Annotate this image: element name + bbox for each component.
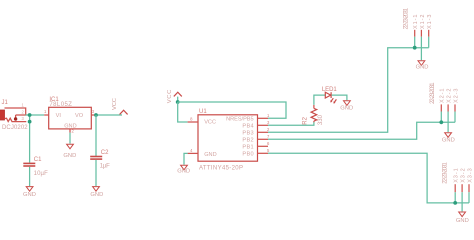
U1 pin 6 stub [258,145,269,147]
svg-text:VCC: VCC [204,119,216,125]
svg-text:PB0: PB0 [242,151,253,157]
voltage regulator IC1 78L05Z [49,97,92,129]
IC1 pin 3 stub [91,114,96,116]
node junction X3 [453,201,457,205]
svg-text:X2-2: X2-2 [447,89,453,104]
svg-text:22-23-2031: 22-23-2031 [430,82,436,104]
wire U1 pin5 to connector X3 [268,153,469,203]
IC1 pin 2 stub [69,129,71,133]
ground below X2 [442,133,455,144]
svg-text:LED1: LED1 [322,87,337,93]
svg-text:DCJ0202: DCJ0202 [2,125,28,131]
J1 pin 1 [5,108,26,115]
connector X3 22-23-2031 [443,162,474,193]
wire C2 branch down [95,115,97,156]
capacitor C1 [23,157,48,177]
svg-text:GND: GND [442,137,455,143]
U1 pin 4 stub [188,152,198,154]
U1 pin 5 stub [258,152,269,154]
svg-text:GND: GND [456,218,469,224]
wire C2 to ground [95,160,97,186]
svg-text:1µF: 1µF [100,164,110,170]
svg-text:C2: C2 [101,150,109,156]
wire IC1 VO to VCC arrow [96,114,122,116]
node junction VCC net [176,100,180,104]
svg-text:X3-2: X3-2 [461,168,467,183]
wire IC1 GND pin down [69,133,71,144]
wire J1 down to C1 [29,115,31,163]
wire R2 to LED1 [314,95,325,105]
svg-text:GND: GND [23,192,36,198]
svg-text:U1: U1 [199,109,207,115]
svg-text:X1-1: X1-1 [413,15,419,30]
wire X3 pin3 down [468,192,470,203]
wire LED1 to ground [332,95,347,100]
svg-text:GND: GND [204,152,216,158]
node junction rail/C1 [28,113,32,117]
svg-text:PB3: PB3 [242,130,253,136]
wire VCC stub down to junction [177,97,179,102]
wire VCC junction down to U1 pin8 [178,102,188,122]
svg-text:ATTINY45-20P: ATTINY45-20P [199,165,243,171]
resistor R2 330 [303,105,324,125]
svg-text:GND: GND [340,106,353,112]
wire X2 pin1 down [440,112,442,123]
node junction pin3 [28,120,32,124]
wire U1 pin3 to R2 [268,122,314,125]
svg-text:330: 330 [318,114,324,125]
wire X1 pin2 to ground [420,37,422,61]
ground below X1 [416,61,429,71]
J1 pin number labels [22,103,25,122]
wire J1 to IC1 VI [26,114,45,116]
node junction VO/C2 [94,113,98,117]
svg-text:X3-3: X3-3 [467,168,473,183]
svg-text:GND: GND [64,123,76,129]
wire X2 pin2 to ground [447,112,449,133]
ground below U1 pin4 [177,165,190,174]
svg-text:J1: J1 [2,100,9,106]
J1 pin 3 spring [5,118,27,121]
capacitor C2 [90,150,110,169]
svg-text:GND: GND [63,153,76,159]
wire X1 pin1 down [414,37,416,48]
LED LED1 [322,87,337,104]
svg-text:PB2: PB2 [242,137,253,143]
svg-text:GND: GND [177,169,190,175]
svg-text:10µF: 10µF [34,171,49,177]
ground below IC1 [63,144,76,159]
wire U1 pin7 to connector X2 [268,122,455,139]
svg-text:VI: VI [56,113,62,119]
wire VCC junction to U1 pin1 (reset pullup) [178,102,286,118]
svg-text:X1-2: X1-2 [420,15,426,30]
svg-text:C1: C1 [34,157,42,163]
wire X3 pin1 down [454,192,456,203]
wire X1 pin3 down [428,37,430,48]
U1 pin 2 stub [258,131,269,133]
node junction X1 [413,46,417,50]
svg-text:VCC: VCC [167,90,173,104]
node junction X2 [439,120,443,124]
wire U1 pin2 to connector X1 [268,48,429,133]
wire X3 pin2 to ground [461,192,463,211]
svg-text:X3-1: X3-1 [454,168,460,183]
ground below C1 [23,187,36,198]
svg-text:GND: GND [416,65,429,71]
wire C1 to ground [29,167,31,186]
supply VCC at IC1 output [112,98,128,114]
supply VCC at U1 [167,90,182,104]
svg-text:22-23-2031: 22-23-2031 [404,7,410,29]
wire X2 pin3 down [454,112,456,123]
ground below C2 [90,187,103,198]
connector X2 22-23-2031 [430,82,459,112]
connector J1 DCJ0202 body [0,110,5,120]
U1 pin 1 stub [258,117,269,119]
U1 pin 3 stub [258,124,269,126]
U1 pin 7 stub [258,138,269,140]
svg-text:VCC: VCC [112,98,118,110]
svg-text:22-23-2031: 22-23-2031 [443,162,449,184]
U1 pin 8 stub [188,121,198,123]
microcontroller U1 ATTINY45-20P [198,109,258,171]
svg-text:GND: GND [90,192,103,198]
IC1 pin 1 stub [44,114,49,116]
connector X1 22-23-2031 [404,7,434,36]
svg-text:PB1: PB1 [242,144,253,150]
svg-text:VO: VO [75,113,84,119]
ground below X3 [456,212,469,224]
svg-text:NRES/PB5: NRES/PB5 [226,116,254,122]
svg-text:78L05Z: 78L05Z [49,102,72,108]
svg-text:X1-3: X1-3 [427,15,433,30]
svg-text:R2: R2 [303,116,309,124]
svg-text:X2-1: X2-1 [440,89,446,104]
wire U1 pin4 to ground [184,153,188,164]
ground at LED1 [340,101,353,112]
J1 pin 2 contact [14,115,26,121]
svg-text:X2-3: X2-3 [453,89,459,104]
svg-text:PB4: PB4 [242,123,253,129]
